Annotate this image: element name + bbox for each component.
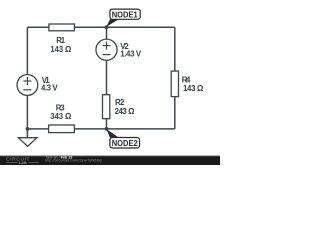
svg-text:NODE1: NODE1 [112, 9, 138, 19]
svg-text:143 Ω: 143 Ω [50, 45, 71, 54]
svg-text:R1: R1 [56, 36, 66, 45]
svg-text:http://circuitlab.com/c2ewr0j7: http://circuitlab.com/c2ewr0j7k53kj/ [45, 158, 102, 162]
svg-text:243 Ω: 243 Ω [115, 107, 135, 116]
svg-text:143 Ω: 143 Ω [183, 84, 203, 93]
svg-text:R2: R2 [115, 98, 125, 107]
svg-text:343 Ω: 343 Ω [50, 112, 71, 121]
svg-text:NODE2: NODE2 [112, 138, 138, 148]
svg-text:LAB: LAB [19, 161, 27, 165]
svg-text:4.3 V: 4.3 V [41, 84, 58, 93]
svg-text:1.43 V: 1.43 V [120, 50, 142, 59]
